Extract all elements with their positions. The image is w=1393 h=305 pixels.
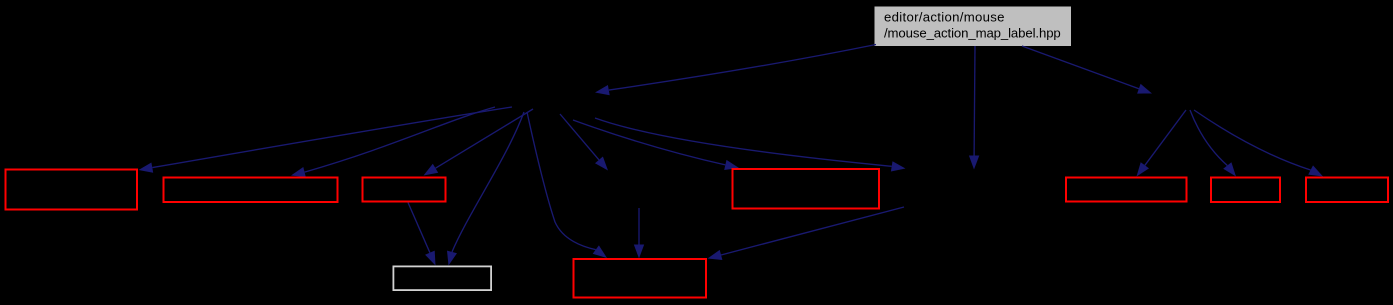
edge H2->E [1137, 110, 1187, 177]
edge H2->G [1194, 110, 1323, 177]
node F (red) [1211, 178, 1280, 203]
node R (red, bottom) [574, 259, 707, 298]
edge H1->A [139, 107, 513, 173]
edge H1->C [424, 109, 534, 176]
edge I2->R [708, 207, 905, 260]
edge N1->H1 [595, 45, 876, 96]
edge H1->R (curve) [527, 112, 607, 258]
svg-text:/mouse_action_map_label.hpp: /mouse_action_map_label.hpp [884, 26, 1061, 41]
node C (red) [363, 178, 446, 202]
edge H1->B [291, 107, 495, 177]
edge N1->H2 [1022, 46, 1152, 94]
node N1 editor/action/mouse/mouse_action_map_label.hpp [875, 7, 1072, 47]
edge H1->D [573, 120, 739, 170]
edge C->W [408, 203, 436, 266]
node G (red) [1306, 178, 1388, 203]
edge H1->W [447, 112, 524, 266]
node A (red) [6, 170, 138, 210]
edge M->R (vertical) [634, 208, 644, 259]
node E (red) [1066, 178, 1187, 202]
node W (light gray) [393, 266, 491, 290]
svg-text:editor/action/mouse: editor/action/mouse [884, 10, 1005, 25]
edge N1->I2 (vertical) [969, 46, 979, 170]
edge H2->F [1190, 110, 1236, 177]
edge H1->M [560, 114, 608, 171]
node B (red) [164, 178, 338, 203]
node D (red) [733, 169, 880, 209]
edge H1->I2 [595, 118, 906, 172]
